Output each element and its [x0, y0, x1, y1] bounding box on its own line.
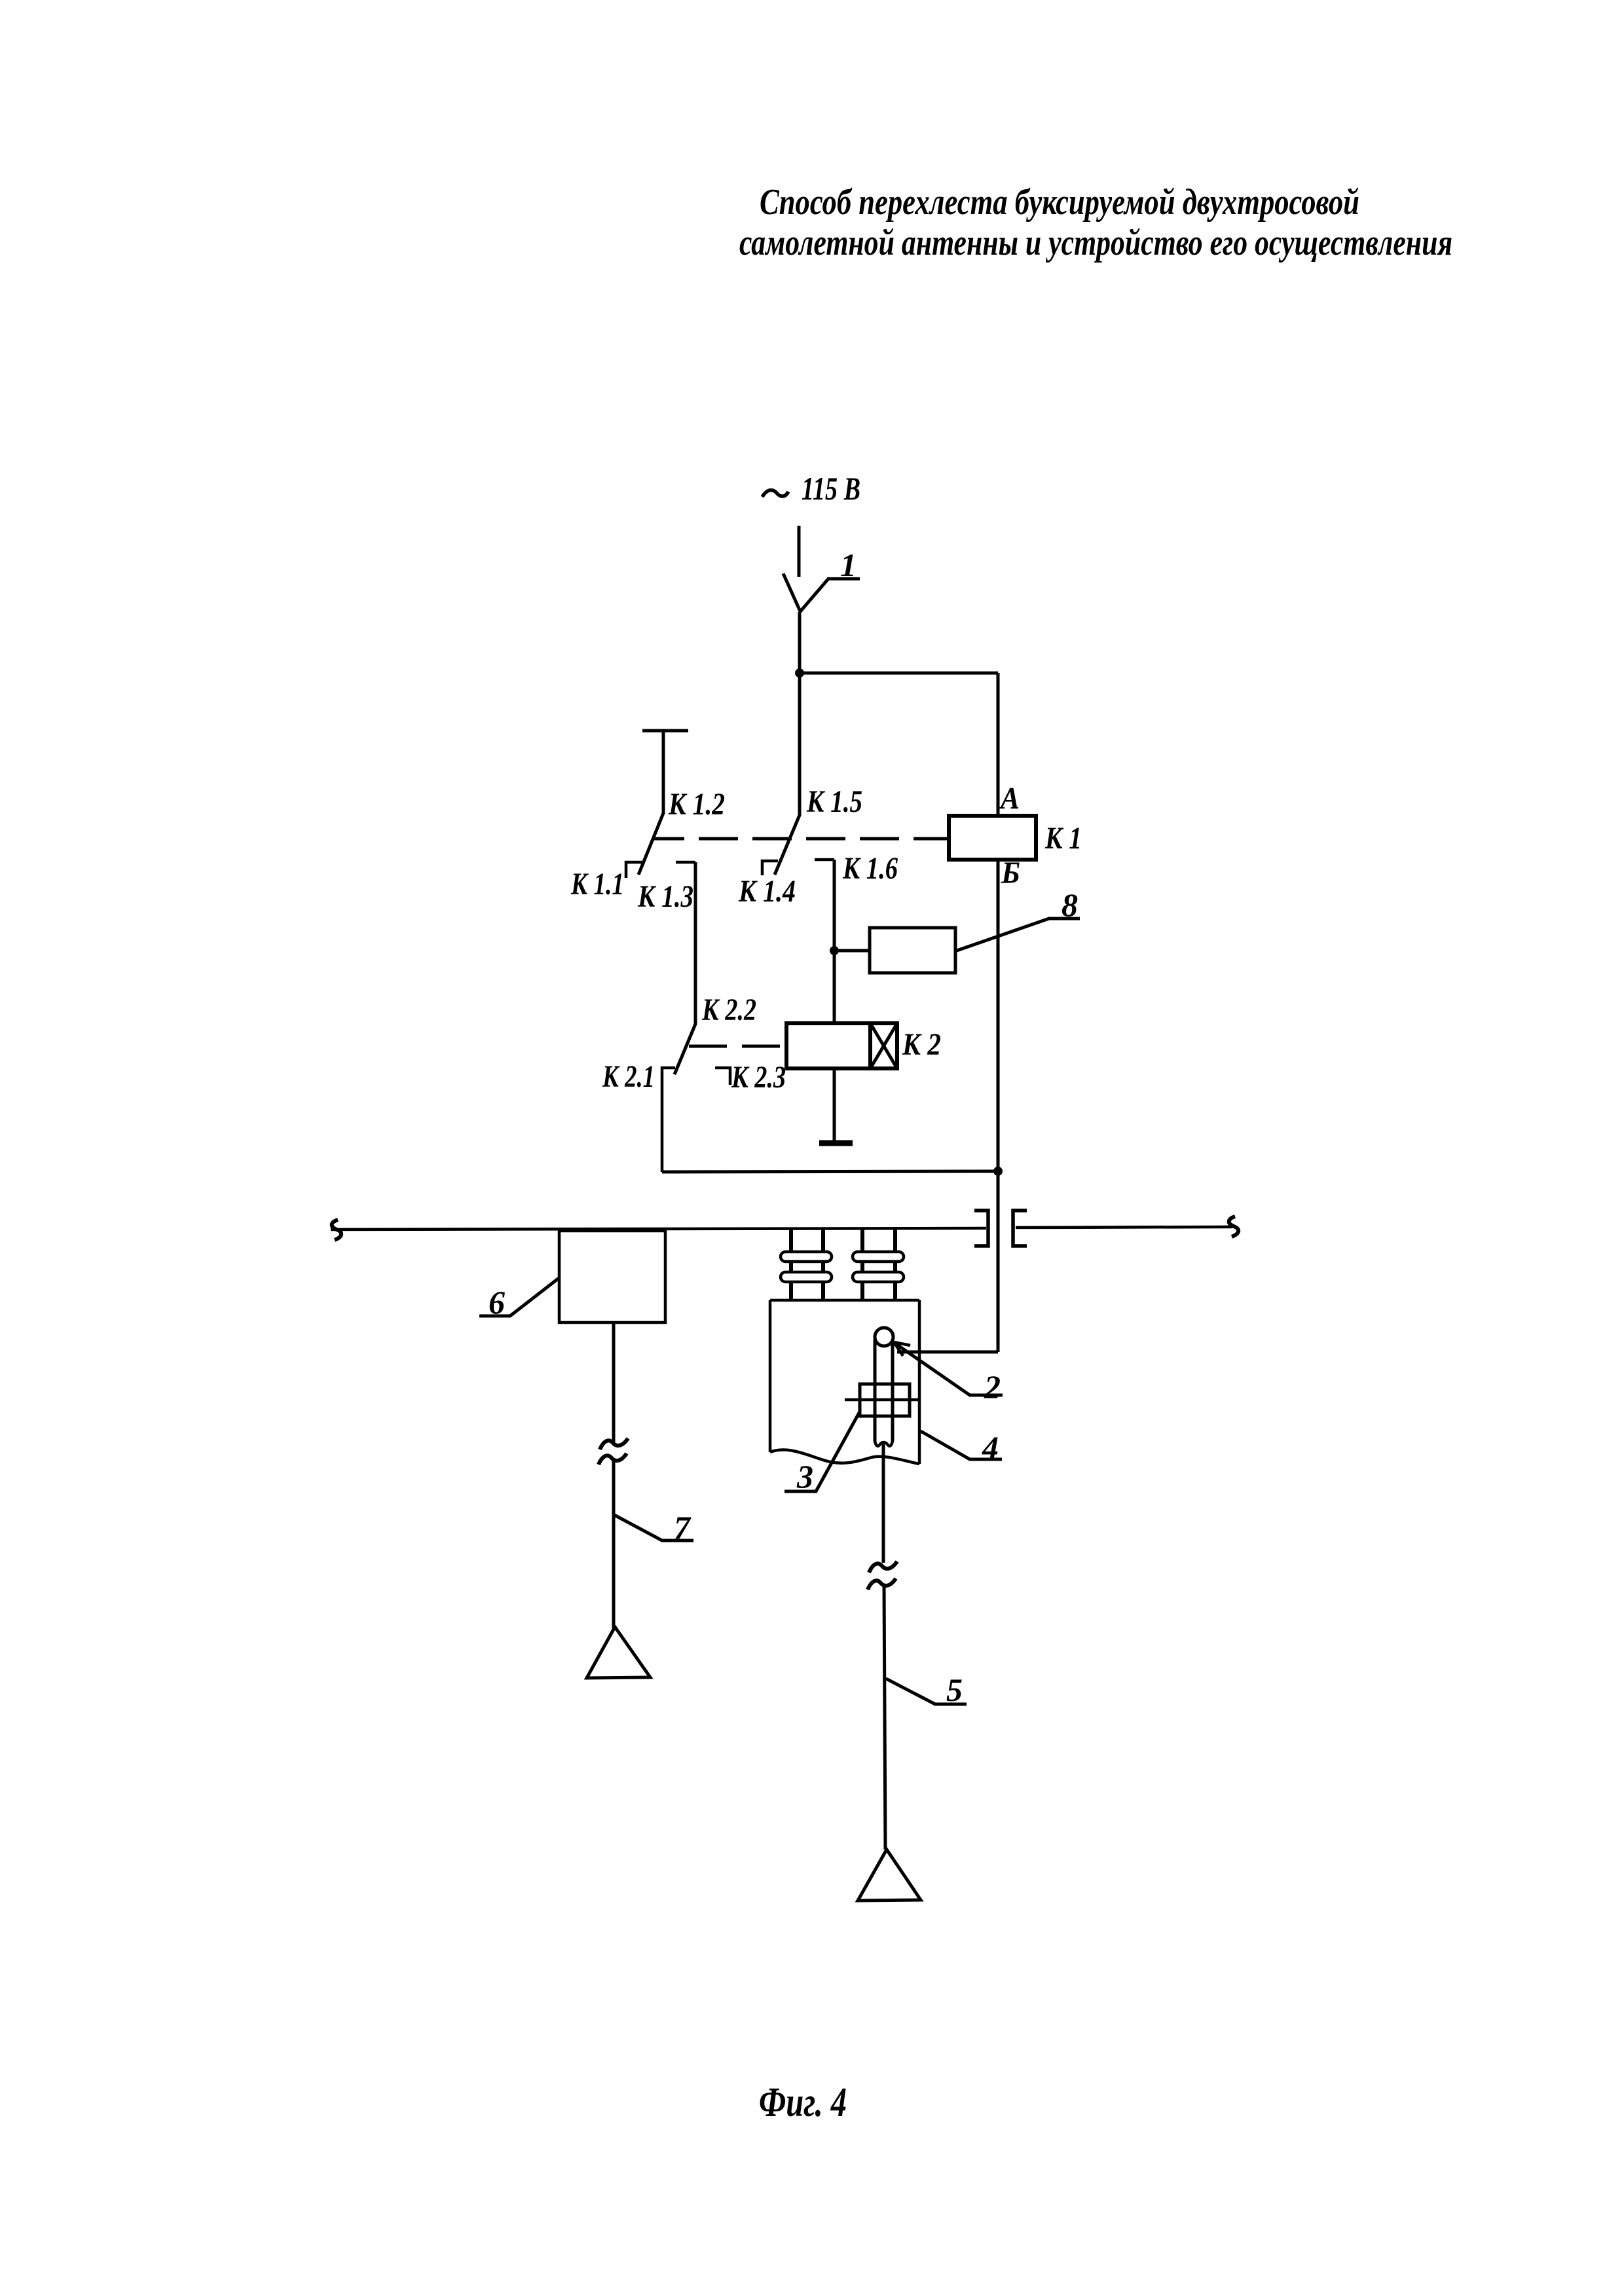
svg-text:4: 4: [982, 1429, 999, 1466]
relay K2 coil: [786, 1023, 870, 1068]
antenna wire 7 lower: [612, 1459, 616, 1628]
svg-text:А: А: [999, 781, 1020, 816]
box 6 (winch): [559, 1231, 665, 1322]
svg-text:7: 7: [674, 1509, 692, 1546]
svg-text:6: 6: [489, 1284, 505, 1321]
contact K1.2 wire: [662, 731, 665, 814]
leader line for 6: [479, 1277, 560, 1316]
mechanical linkage dashed line of K1: [654, 837, 949, 841]
wire K1.3 down to K2.2: [694, 862, 697, 1025]
svg-text:К 2.2: К 2.2: [701, 993, 756, 1027]
svg-text:самолетной антенны и устройств: самолетной антенны и устройство его осущ…: [739, 223, 1452, 263]
box 8 (load unit): [870, 928, 955, 973]
feedthrough insulator left: [781, 1230, 832, 1300]
leader line for 8: [957, 919, 1080, 951]
svg-text:8: 8: [1061, 886, 1078, 923]
wire to box 8: [834, 949, 870, 953]
svg-text:3: 3: [796, 1458, 813, 1495]
svg-text:К 2.3: К 2.3: [731, 1060, 786, 1095]
contact K1.6 fixed terminal: [815, 858, 834, 862]
antenna wire 5 upper: [882, 1443, 885, 1563]
contact K2.1 fixed terminal: [662, 1068, 675, 1172]
antenna wire 5 lower: [884, 1584, 885, 1850]
arrow leader for 2: [894, 1342, 1003, 1395]
wire K2 to ground: [833, 1068, 836, 1142]
wire 5 break squiggles: [869, 1561, 897, 1573]
svg-text:К 1.2: К 1.2: [668, 787, 725, 822]
mechanical linkage dashed line of K2: [689, 1045, 786, 1048]
clamp 3 axis line: [845, 1398, 918, 1402]
svg-text:К 2.1: К 2.1: [602, 1059, 655, 1094]
svg-text:5: 5: [946, 1671, 963, 1708]
contact K2.2 blade: [674, 1024, 695, 1074]
AC source tilde: [762, 490, 788, 497]
ground: [819, 1140, 853, 1146]
wire right vertical to K1: [997, 673, 1000, 817]
svg-text:2: 2: [984, 1368, 1001, 1405]
fuselage skin line right: [1016, 1227, 1232, 1228]
svg-text:1: 1: [840, 547, 857, 583]
fuselage right break squiggle: [1229, 1216, 1238, 1237]
contact K1.3 fixed terminal: [676, 861, 695, 864]
fuselage left break squiggle: [332, 1220, 341, 1240]
clamp 3: [860, 1384, 910, 1416]
svg-text:Б: Б: [1001, 856, 1020, 890]
leader line for 3: [784, 1412, 860, 1491]
wire right vertical K1 to feedthrough: [997, 860, 1000, 1352]
svg-text:К 1.6: К 1.6: [842, 851, 898, 886]
wire below switch: [798, 612, 802, 674]
svg-text:К 1.3: К 1.3: [637, 879, 693, 914]
connector bracket right: [1013, 1211, 1027, 1246]
box 4 (container, torn bottom): [770, 1300, 919, 1464]
svg-text:К 2: К 2: [902, 1027, 941, 1062]
fuselage skin line left: [331, 1228, 986, 1230]
relay K2 indicator box with X: [870, 1023, 897, 1068]
antenna wire 7 upper: [612, 1322, 616, 1443]
contact K1.1 fixed terminal: [626, 862, 642, 878]
contact K1.2 terminal bar: [642, 729, 688, 733]
wire from 115V: [798, 526, 801, 577]
contact K2.3 fixed terminal: [715, 1068, 730, 1085]
relay K1 coil: [949, 816, 1036, 860]
wire K1.6 down to relay K2: [833, 860, 836, 1025]
leader line for 5: [886, 1679, 967, 1704]
switch 1 blade: [783, 574, 801, 613]
wire 7 break squiggles: [600, 1438, 628, 1449]
wire left vertical to K1.5: [798, 673, 802, 816]
drogue weight of antenna 7: [587, 1627, 650, 1678]
leader line for 4: [921, 1431, 1002, 1459]
svg-text:Способ перехлеста буксируемой: Способ перехлеста буксируемой двухтросов…: [760, 182, 1359, 223]
contact K1.5 blade: [775, 815, 800, 875]
wire horizontal top: [800, 672, 998, 675]
node junction dot: [795, 668, 804, 678]
pulley rod: [875, 1339, 893, 1446]
contact K1.2 blade: [638, 813, 663, 875]
wire from vertical to pulley: [897, 1351, 998, 1354]
connector bracket left: [974, 1211, 988, 1246]
node junction dot at box 8 tap: [830, 946, 839, 955]
svg-text:115 В: 115 В: [802, 470, 860, 507]
leader line for switch 1: [801, 579, 860, 611]
svg-text:Фиг. 4: Фиг. 4: [759, 2079, 847, 2125]
svg-text:К 1.4: К 1.4: [738, 874, 796, 909]
leader line for 7: [614, 1515, 693, 1540]
drogue weight of antenna 5: [858, 1850, 921, 1901]
svg-text:К 1: К 1: [1044, 821, 1082, 856]
node junction dot loop: [993, 1167, 1003, 1176]
contact K1.4 fixed terminal: [762, 861, 778, 875]
pulley 2 circle: [875, 1328, 893, 1346]
svg-text:К 1.5: К 1.5: [806, 784, 862, 819]
wire K2.1 loop bottom: [662, 1171, 999, 1172]
feedthrough insulator right: [853, 1230, 904, 1300]
svg-text:К 1.1: К 1.1: [570, 867, 624, 902]
